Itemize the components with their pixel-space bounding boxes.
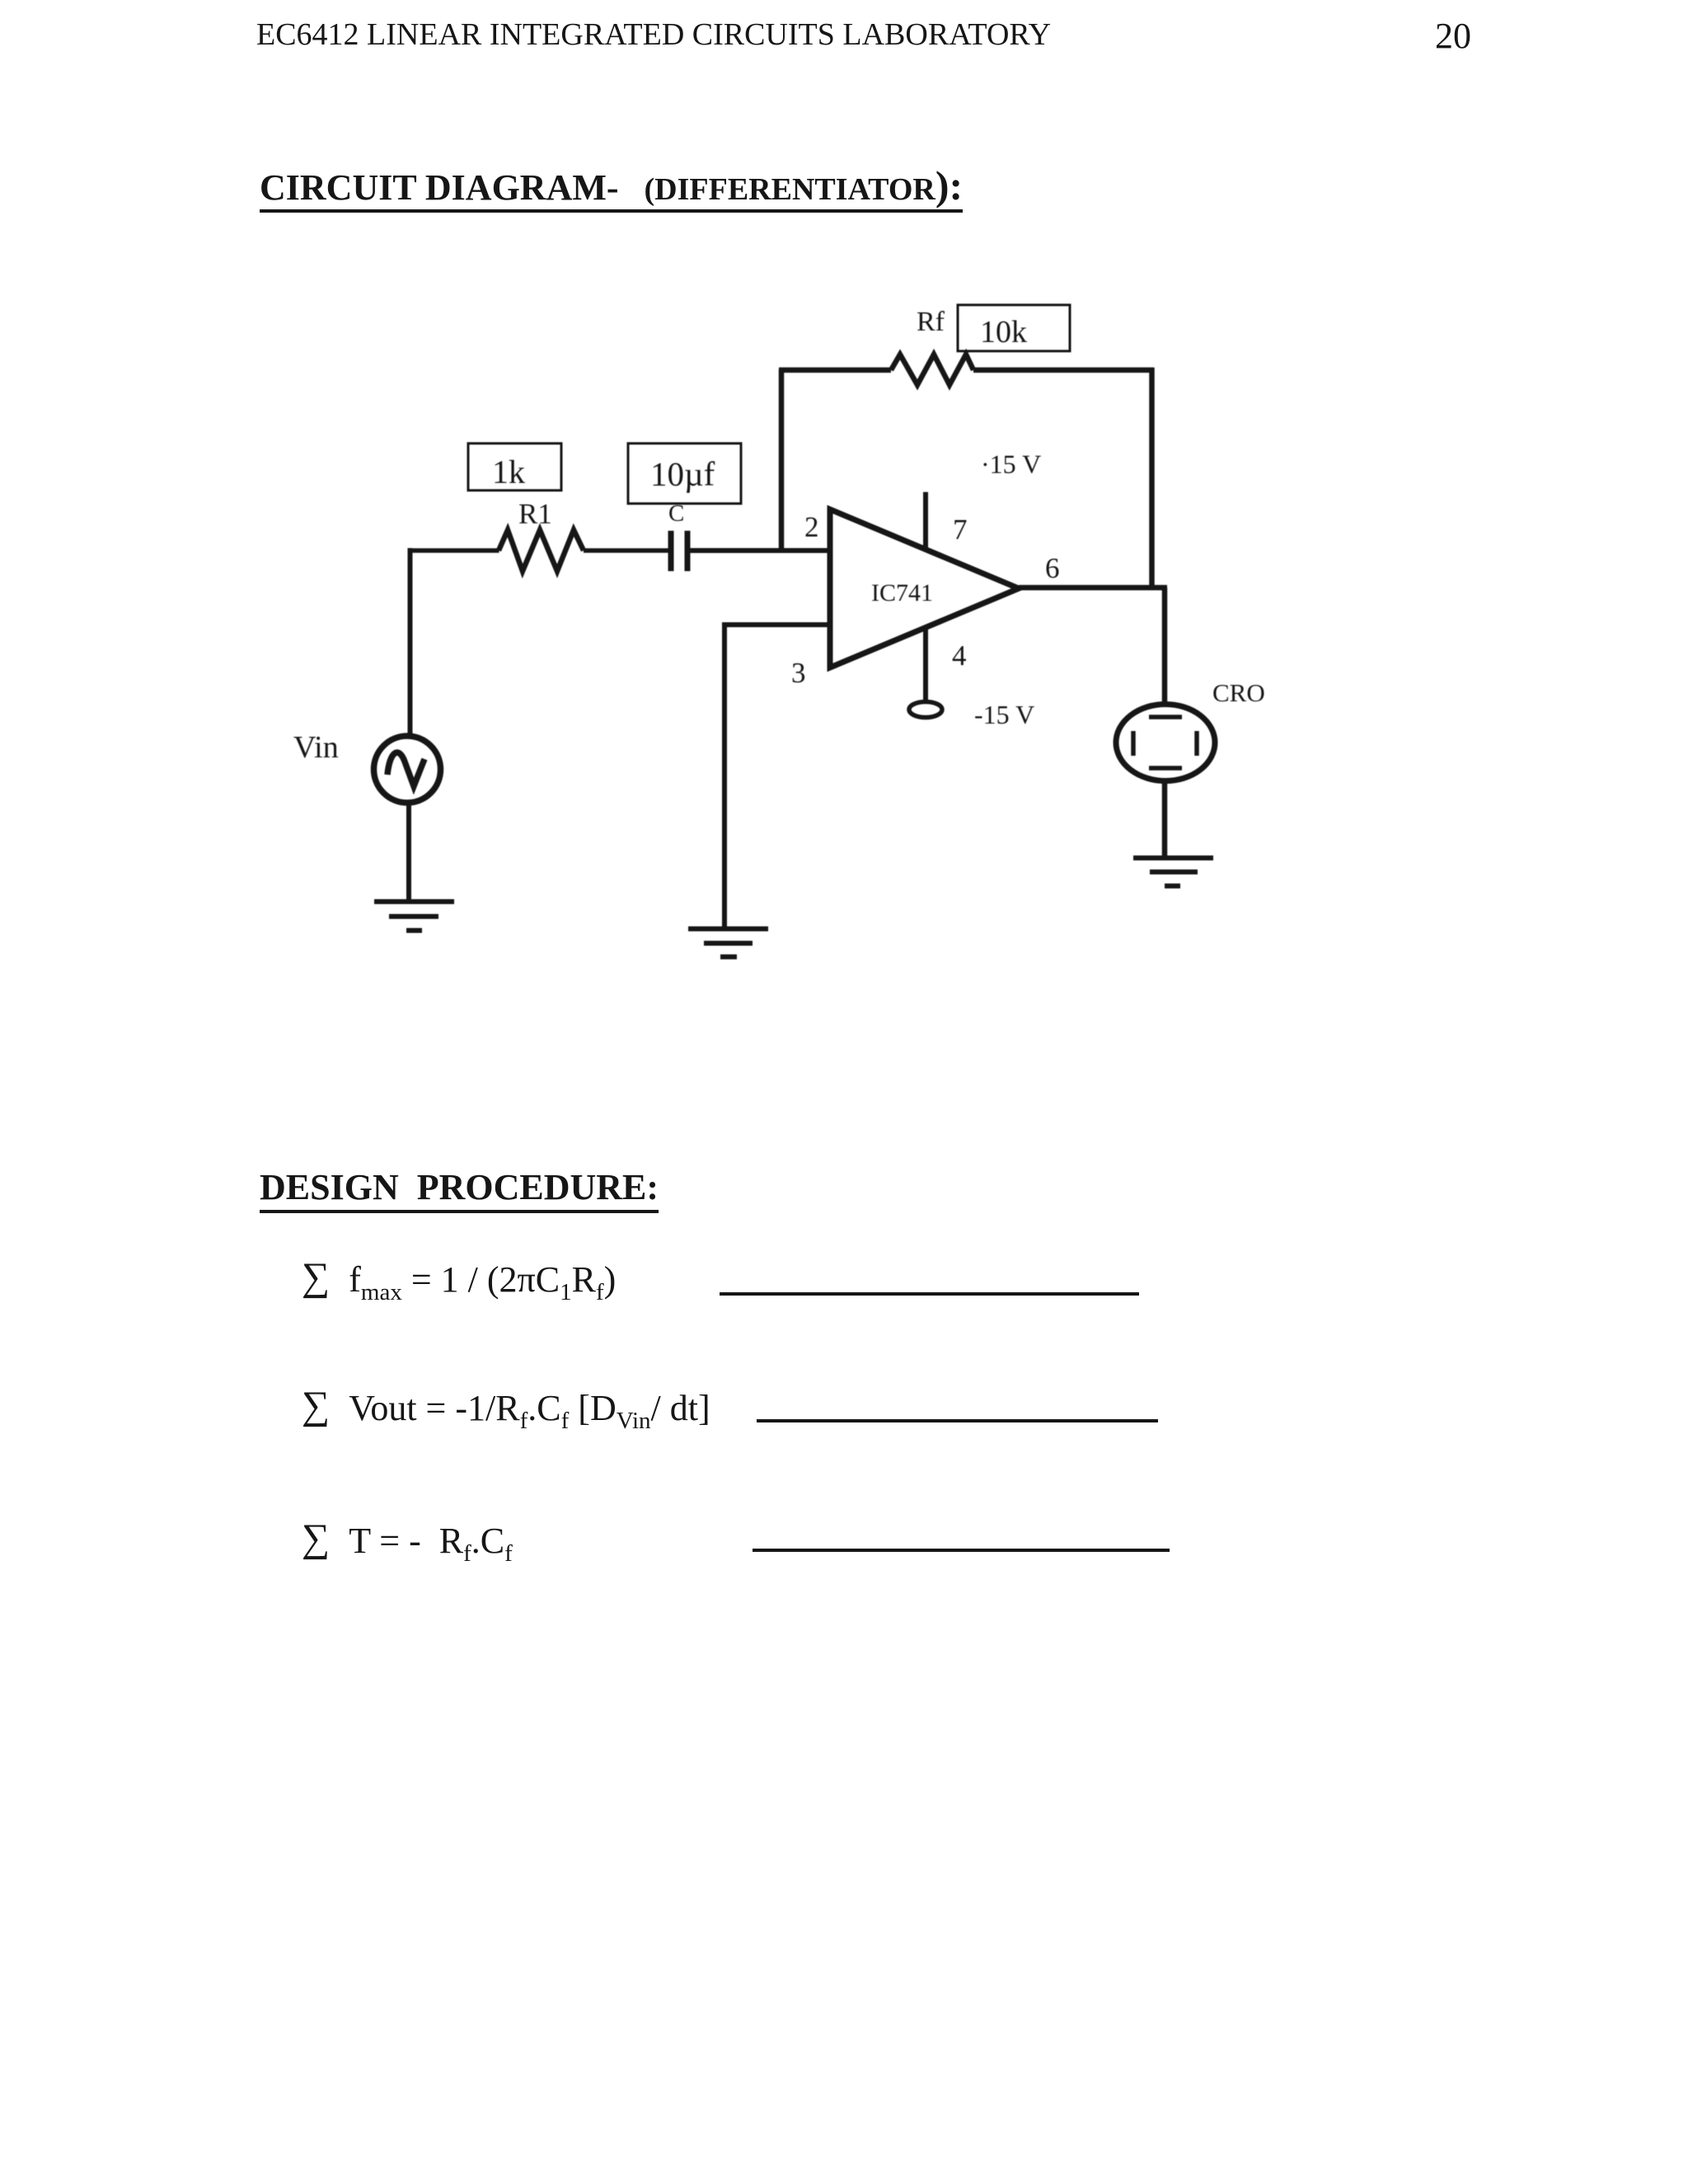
pin 7 supply line bbox=[923, 492, 928, 550]
wire: feedback right vertical bbox=[1149, 368, 1155, 588]
resistor R1 bbox=[499, 530, 584, 571]
wire: capacitor to op-amp pin 2 bbox=[690, 548, 830, 553]
svg-text:3: 3 bbox=[791, 657, 806, 689]
wire: feedback top right segment bbox=[973, 368, 1154, 373]
CRO instrument circle bbox=[1116, 705, 1215, 781]
wire: feedback top left segment bbox=[779, 368, 891, 373]
page header bbox=[256, 16, 1051, 53]
svg-text:10k: 10k bbox=[980, 315, 1027, 349]
svg-text:6: 6 bbox=[1045, 552, 1060, 584]
ground (Vin) bbox=[374, 902, 454, 930]
wire: output from apex bbox=[1019, 585, 1167, 591]
wire: Vin to ground bbox=[406, 802, 411, 900]
wire: R1 to capacitor C bbox=[584, 548, 669, 553]
page number bbox=[1435, 15, 1471, 57]
resistor Rf bbox=[891, 354, 973, 385]
wire: Vin vertical upper bbox=[408, 548, 413, 737]
svg-text:10µf: 10µf bbox=[650, 455, 715, 493]
wire: feedback left vertical bbox=[779, 369, 785, 551]
svg-text:1k: 1k bbox=[492, 453, 525, 490]
section title bbox=[260, 162, 963, 213]
formula 2 bbox=[302, 1385, 710, 1430]
svg-text:7: 7 bbox=[953, 513, 968, 546]
svg-text:4: 4 bbox=[952, 640, 967, 672]
source Vin circle bbox=[374, 736, 441, 803]
wire: input horizontal from Vin corner to R1 bbox=[410, 548, 499, 553]
design procedure heading bbox=[260, 1166, 659, 1213]
svg-text:CRO: CRO bbox=[1212, 678, 1265, 707]
sine symbol bbox=[387, 752, 424, 786]
pin 4 terminal ellipse bbox=[909, 702, 942, 718]
svg-text:2: 2 bbox=[804, 511, 819, 543]
svg-text:-15 V: -15 V bbox=[974, 700, 1034, 729]
blank line 2 bbox=[757, 1419, 1158, 1422]
svg-text:IC741: IC741 bbox=[871, 579, 933, 607]
svg-text:R1: R1 bbox=[518, 498, 552, 530]
svg-text:Rf: Rf bbox=[917, 307, 945, 337]
value box 1k bbox=[468, 443, 561, 490]
wire: pin 3 horizontal bbox=[722, 622, 830, 627]
wire: CRO to ground bbox=[1162, 780, 1168, 857]
value box 10k bbox=[958, 305, 1070, 351]
ground (CRO) bbox=[1133, 858, 1213, 886]
svg-text:·15 V: ·15 V bbox=[981, 449, 1041, 479]
formula 3 bbox=[302, 1517, 513, 1563]
formula 1 bbox=[302, 1256, 616, 1301]
svg-text:C: C bbox=[668, 500, 684, 527]
CRO screen marks bbox=[1133, 717, 1197, 768]
ground (pin 3) bbox=[688, 929, 768, 957]
blank line 3 bbox=[753, 1549, 1170, 1552]
op-amp U1 IC741 bbox=[830, 509, 1019, 668]
wire: pin 3 vertical to ground bbox=[722, 622, 727, 927]
wire: CRO drop vertical bbox=[1162, 588, 1168, 705]
svg-text:Vin: Vin bbox=[293, 730, 339, 765]
value box 10uf bbox=[628, 443, 741, 504]
blank line 1 bbox=[720, 1292, 1139, 1296]
pin 4 supply line bbox=[923, 627, 928, 702]
capacitor C plates bbox=[671, 531, 687, 571]
